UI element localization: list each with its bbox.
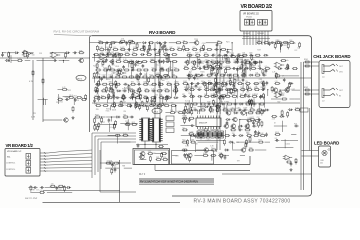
svg-text:C31: C31 (118, 90, 121, 92)
svg-text:R21: R21 (60, 102, 63, 104)
svg-text:1/4W: 1/4W (207, 102, 211, 104)
svg-text:M5218P: M5218P (199, 123, 208, 125)
svg-text:560: 560 (109, 69, 112, 71)
svg-text:0.022: 0.022 (234, 108, 239, 110)
svg-text:IC2: IC2 (185, 101, 188, 103)
svg-text:3.3K: 3.3K (159, 94, 162, 96)
svg-text:201: 201 (320, 163, 323, 165)
svg-text:R21: R21 (142, 46, 145, 48)
svg-text:47u: 47u (169, 67, 172, 69)
svg-text:R21: R21 (196, 137, 199, 139)
svg-text:D3: D3 (221, 102, 223, 104)
svg-text:R230: R230 (226, 66, 230, 68)
svg-text:TR7: TR7 (206, 83, 209, 85)
svg-text:47u: 47u (238, 54, 241, 56)
svg-text:R21: R21 (124, 88, 127, 90)
svg-text:100K: 100K (112, 109, 117, 111)
svg-text:220: 220 (205, 60, 208, 62)
svg-text:SW CTL PNP: SW CTL PNP (25, 198, 38, 200)
svg-text:220: 220 (152, 102, 155, 104)
svg-text:R21: R21 (182, 94, 185, 96)
svg-text:100K: 100K (247, 87, 252, 89)
svg-text:0.1u: 0.1u (211, 148, 214, 150)
svg-text:0.022: 0.022 (176, 111, 180, 113)
svg-text:4.7K: 4.7K (31, 117, 36, 119)
svg-text:220: 220 (231, 54, 234, 56)
svg-text:C31: C31 (255, 73, 258, 75)
svg-text:CONTROL: CONTROL (6, 169, 15, 171)
svg-text:C31: C31 (40, 190, 43, 192)
svg-text:DLY 0: DLY 0 (139, 174, 146, 176)
svg-text:D3: D3 (107, 51, 109, 53)
svg-text:2.2K: 2.2K (272, 72, 275, 74)
svg-text:RV-3 BOARD: RV-3 BOARD (149, 30, 176, 35)
svg-text:R47: R47 (253, 120, 256, 122)
svg-text:3.3K: 3.3K (170, 110, 173, 112)
svg-text:R105: R105 (115, 66, 119, 68)
svg-text:220: 220 (238, 127, 241, 129)
svg-text:BAL: BAL (7, 156, 11, 159)
svg-text:47u: 47u (107, 161, 110, 163)
svg-text:C31: C31 (96, 84, 99, 86)
svg-text:220: 220 (155, 94, 158, 96)
svg-text:220: 220 (204, 153, 207, 155)
svg-text:C52: C52 (211, 112, 214, 114)
svg-text:VR BOARD 2/2: VR BOARD 2/2 (243, 13, 260, 16)
svg-text:560: 560 (132, 52, 135, 54)
svg-text:R105: R105 (125, 52, 129, 54)
svg-text:100K: 100K (249, 53, 253, 55)
svg-text:VR BOARD 1/2: VR BOARD 1/2 (6, 143, 34, 148)
svg-text:1/4W: 1/4W (183, 81, 187, 83)
svg-text:C207: C207 (189, 131, 193, 133)
svg-text:R12: R12 (132, 122, 135, 124)
svg-text:0.1u: 0.1u (286, 60, 289, 62)
svg-text:R47: R47 (278, 101, 281, 103)
svg-text:0.022: 0.022 (197, 87, 201, 89)
svg-text:0.1u: 0.1u (58, 97, 61, 99)
svg-text:0.022: 0.022 (286, 144, 290, 146)
svg-text:560: 560 (177, 47, 180, 49)
svg-text:R12: R12 (201, 108, 204, 110)
svg-text:C207: C207 (281, 93, 285, 95)
svg-text:2-150-02: 2-150-02 (243, 33, 250, 35)
svg-text:560: 560 (171, 103, 174, 105)
svg-text:0.022: 0.022 (106, 47, 110, 49)
svg-text:C207: C207 (254, 94, 258, 96)
svg-text:C207: C207 (202, 43, 206, 45)
svg-text:0.1u: 0.1u (238, 66, 241, 68)
svg-text:R230: R230 (93, 65, 97, 67)
svg-text:220: 220 (96, 109, 99, 111)
svg-text:R230: R230 (103, 68, 107, 70)
svg-text:R47: R47 (189, 72, 192, 74)
svg-text:IC2: IC2 (152, 68, 155, 70)
svg-text:R47: R47 (95, 115, 98, 117)
svg-text:R21: R21 (101, 95, 104, 97)
svg-text:TR7: TR7 (237, 161, 240, 163)
svg-text:R47: R47 (220, 98, 223, 100)
svg-text:C31: C31 (97, 74, 100, 76)
svg-text:C15: C15 (297, 47, 300, 49)
svg-text:R12: R12 (113, 97, 116, 99)
svg-text:R12: R12 (122, 49, 125, 51)
svg-text:C52: C52 (96, 94, 99, 96)
svg-text:R105: R105 (201, 72, 205, 74)
svg-text:R88: R88 (172, 75, 175, 77)
svg-text:R88: R88 (130, 88, 133, 90)
svg-text:1/4W: 1/4W (249, 148, 253, 150)
svg-text:47u: 47u (158, 87, 161, 89)
svg-text:0.1u: 0.1u (156, 64, 159, 66)
svg-text:D3: D3 (248, 64, 250, 66)
svg-text:TR7: TR7 (108, 95, 111, 97)
svg-text:C52: C52 (152, 78, 155, 80)
svg-text:TR7: TR7 (143, 95, 146, 97)
svg-text:R105: R105 (163, 99, 167, 101)
svg-text:R12: R12 (236, 80, 239, 82)
svg-text:R21: R21 (201, 63, 204, 65)
svg-text:IC2: IC2 (208, 81, 211, 83)
svg-text:220: 220 (245, 81, 248, 83)
svg-text:R12: R12 (74, 96, 77, 98)
svg-text:0.1u: 0.1u (110, 127, 113, 129)
svg-text:1/4W: 1/4W (113, 42, 117, 44)
svg-text:1/4W: 1/4W (127, 103, 131, 105)
svg-text:TR7: TR7 (113, 73, 116, 75)
svg-text:D3: D3 (183, 40, 185, 42)
svg-text:C31: C31 (129, 60, 132, 62)
svg-text:D3: D3 (144, 74, 146, 76)
svg-text:R47: R47 (204, 94, 207, 96)
svg-text:R21: R21 (198, 66, 201, 68)
svg-text:R47: R47 (257, 50, 260, 52)
svg-text:R201: R201 (304, 59, 308, 61)
svg-text:C15: C15 (206, 140, 209, 142)
svg-text:R88: R88 (292, 43, 295, 45)
svg-text:CH1: CH1 (339, 72, 343, 74)
svg-text:R47: R47 (164, 103, 167, 105)
svg-text:RV-3, RV-3-E CIRCUIT DIAGRAM: RV-3, RV-3-E CIRCUIT DIAGRAM (54, 30, 100, 34)
svg-text:R47: R47 (281, 75, 284, 77)
svg-text:R21: R21 (156, 157, 159, 159)
svg-text:0.1u: 0.1u (248, 110, 252, 112)
svg-text:C52: C52 (257, 117, 260, 119)
svg-text:1/4W: 1/4W (149, 50, 153, 52)
svg-text:C31: C31 (215, 57, 218, 59)
svg-text:R21: R21 (294, 124, 297, 126)
svg-text:D3: D3 (36, 190, 38, 192)
svg-text:C15: C15 (192, 47, 195, 49)
svg-text:220: 220 (217, 40, 220, 42)
svg-text:RV-3 MAIN BOARD ASSY 703422780: RV-3 MAIN BOARD ASSY 7034227800 (194, 199, 291, 205)
svg-text:47u: 47u (233, 88, 236, 90)
svg-text:47u: 47u (216, 132, 219, 134)
svg-text:TP-1: TP-1 (154, 111, 160, 113)
svg-text:R105: R105 (275, 132, 279, 134)
svg-text:1/4W: 1/4W (174, 82, 179, 84)
svg-text:R88: R88 (94, 104, 97, 106)
svg-text:R88: R88 (109, 82, 112, 84)
svg-text:R230: R230 (223, 61, 227, 63)
svg-text:4.7K: 4.7K (29, 81, 34, 83)
svg-text:R12: R12 (149, 75, 152, 77)
svg-text:R21: R21 (114, 166, 117, 168)
svg-text:220: 220 (227, 81, 230, 83)
svg-text:C207: C207 (126, 122, 130, 124)
svg-text:0.1u: 0.1u (216, 68, 220, 70)
svg-text:C15: C15 (209, 95, 212, 97)
svg-text:220: 220 (51, 184, 54, 186)
svg-text:C52: C52 (193, 108, 196, 110)
svg-text:TR7: TR7 (131, 82, 134, 84)
svg-text:C207: C207 (248, 119, 252, 121)
svg-text:R105: R105 (69, 95, 73, 97)
svg-text:R214: R214 (286, 159, 290, 161)
svg-text:C15: C15 (192, 86, 195, 88)
svg-text:RV-1: RV-1 (78, 78, 84, 80)
svg-text:R88: R88 (165, 88, 168, 90)
svg-text:2-150-02: 2-150-02 (257, 33, 264, 35)
svg-text:TR7: TR7 (32, 190, 35, 192)
svg-text:IC2: IC2 (208, 140, 211, 142)
svg-text:C52: C52 (100, 98, 103, 100)
svg-text:R105: R105 (254, 88, 258, 90)
svg-text:0.022: 0.022 (120, 47, 124, 49)
svg-text:R88: R88 (98, 40, 101, 42)
svg-text:R230: R230 (106, 108, 110, 110)
svg-text:CONTROL: CONTROL (6, 163, 15, 165)
svg-text:VR BOARD 2/2: VR BOARD 2/2 (241, 4, 273, 10)
svg-text:47u: 47u (213, 54, 216, 56)
svg-text:0.1u: 0.1u (211, 60, 214, 62)
svg-text:R88: R88 (122, 166, 125, 168)
svg-text:IC2: IC2 (229, 75, 232, 77)
svg-text:C207: C207 (122, 101, 126, 103)
svg-text:R47: R47 (240, 94, 243, 96)
svg-text:D3: D3 (275, 138, 277, 140)
svg-text:C31: C31 (111, 64, 114, 66)
svg-text:C15: C15 (133, 47, 136, 49)
svg-text:220: 220 (240, 87, 243, 89)
svg-text:IC2: IC2 (94, 129, 97, 131)
svg-text:5-22496: 5-22496 (243, 36, 249, 38)
svg-text:1/4W: 1/4W (158, 90, 162, 92)
svg-text:IC2: IC2 (295, 50, 298, 52)
svg-text:C52: C52 (112, 107, 115, 109)
svg-text:R21: R21 (261, 87, 264, 89)
svg-text:VR BOARD 1/2: VR BOARD 1/2 (7, 150, 22, 153)
svg-text:R12: R12 (246, 133, 249, 135)
svg-text:1/4W: 1/4W (196, 74, 200, 76)
svg-text:R230: R230 (146, 105, 150, 107)
svg-text:R12: R12 (174, 68, 177, 70)
svg-text:R105: R105 (243, 55, 247, 57)
svg-text:RV-3:2(4)747C04-’6’DF W NET47C: RV-3:2(4)747C04-’6’DF W NET47C04-245DF(4… (140, 180, 198, 184)
svg-text:IC2: IC2 (123, 105, 126, 107)
svg-text:R105: R105 (243, 65, 247, 67)
svg-text:560: 560 (123, 115, 126, 117)
svg-text:R12: R12 (191, 54, 194, 56)
svg-text:0.022: 0.022 (254, 84, 258, 86)
svg-text:1/4W: 1/4W (191, 140, 195, 142)
svg-text:1/4W: 1/4W (111, 103, 115, 105)
svg-text:J-9: J-9 (322, 101, 325, 103)
svg-text:LED BOARD: LED BOARD (314, 140, 339, 145)
svg-text:R105: R105 (103, 88, 107, 90)
svg-text:R12: R12 (68, 90, 71, 92)
svg-text:R105: R105 (201, 61, 205, 63)
svg-text:CH1 JACK BOARD: CH1 JACK BOARD (313, 54, 350, 59)
svg-text:R47: R47 (136, 65, 139, 67)
svg-text:1/4W: 1/4W (243, 108, 247, 110)
svg-text:R230: R230 (106, 79, 110, 81)
svg-text:1K: 1K (274, 123, 276, 125)
svg-text:33K: 33K (39, 53, 42, 55)
svg-text:C207: C207 (190, 69, 194, 71)
svg-text:C15: C15 (137, 82, 140, 84)
svg-text:C31: C31 (225, 94, 228, 96)
svg-text:IC2: IC2 (276, 40, 279, 42)
svg-text:TR7: TR7 (258, 140, 261, 142)
svg-text:0.1u: 0.1u (265, 66, 269, 68)
svg-text:C31: C31 (275, 81, 278, 83)
svg-text:2.2K: 2.2K (184, 116, 187, 118)
svg-text:22K: 22K (151, 60, 154, 62)
svg-text:C207: C207 (100, 122, 104, 124)
svg-text:D3: D3 (182, 127, 184, 129)
svg-text:R47: R47 (195, 53, 198, 55)
svg-text:C207: C207 (187, 53, 191, 55)
svg-text:R21: R21 (226, 42, 229, 44)
svg-text:R47: R47 (216, 61, 219, 63)
svg-text:TR12: TR12 (226, 109, 230, 111)
svg-text:R12: R12 (182, 140, 185, 142)
svg-text:560: 560 (32, 55, 35, 57)
svg-text:TR7: TR7 (258, 66, 261, 68)
svg-text:R105: R105 (106, 111, 110, 113)
svg-text:R105: R105 (283, 45, 287, 47)
svg-text:R202: R202 (304, 87, 308, 89)
svg-text:R21: R21 (169, 84, 172, 86)
svg-text:100K: 100K (79, 50, 83, 52)
svg-text:C15: C15 (237, 76, 240, 78)
svg-text:220: 220 (123, 111, 126, 113)
svg-text:C15: C15 (113, 47, 116, 49)
svg-text:R12: R12 (210, 87, 213, 89)
svg-text:R21: R21 (134, 44, 137, 46)
svg-text:0.022: 0.022 (291, 89, 295, 91)
svg-text:R21: R21 (165, 79, 168, 81)
svg-text:0.022: 0.022 (102, 75, 106, 77)
svg-text:J-6: J-6 (322, 77, 325, 79)
svg-text:R88: R88 (198, 111, 201, 113)
svg-text:TR3: TR3 (194, 39, 197, 41)
